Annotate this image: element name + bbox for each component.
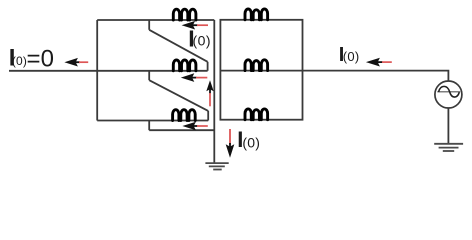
wire stub below H3 [148,121,150,131]
current arrow 1 (left input, points left) [64,58,88,67]
wire left edge of left core box [96,20,98,121]
inductor L6 bottom-right coil [245,109,268,120]
wire top horizontal H1 [97,19,214,21]
current arrow 6 (to ground, points down) [226,129,235,158]
svg-text:I(0): I(0) [188,26,211,52]
wire to source [303,71,449,81]
ground under source [434,144,463,151]
current arrow 4 (under bottom coil, points left) [182,122,207,131]
wire stub above H3 right [207,111,209,121]
current arrow 3 (under middle coil, points left) [181,73,208,82]
secondary core box [220,20,302,120]
AC source sine axis line [437,91,460,93]
current arrow 2 (under top coil, points left) [182,21,208,30]
svg-text:I(0): I(0) [339,44,360,66]
svg-text:I(0): I(0) [237,127,260,152]
wire middle of right box [220,70,302,72]
wire center vertical to ground [213,20,215,163]
wire stub above H2 right [207,62,209,71]
inductor L5 middle-right coil [245,60,268,71]
inductor L1 top-left coil [173,9,196,20]
ground center [205,163,228,169]
current arrow 7 (right wire, points left) [366,58,392,67]
svg-text:I(0)=0: I(0)=0 [9,44,54,72]
wire stub below H1 [148,20,150,30]
wire diagonal D1 [149,30,207,62]
AC source V1 circle [435,81,462,108]
wire stub below H2 [148,71,150,80]
wire source to ground [447,108,449,143]
wire bottom return to center [149,129,214,131]
wire bottom H3 [97,120,208,122]
AC source sine wave [439,86,460,97]
current arrow 5 (center, points up) [206,80,213,106]
wire diagonal D2 [149,80,208,111]
inductor L4 top-right coil [245,9,268,20]
inductor L3 bottom-left coil [173,110,196,121]
wire main input H2 [9,70,208,72]
inductor L2 middle-left coil [173,60,196,71]
